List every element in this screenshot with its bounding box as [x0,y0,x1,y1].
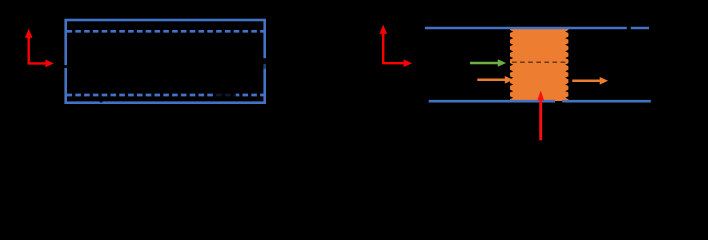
mid-plane dashed line inside control volume [512,61,567,63]
left coordinate axes (red x-y arrows) [25,29,54,68]
occlusion dimming bottom dashed line (invisible black text) [215,92,237,99]
control volume (orange box with zigzag cut edges) [510,28,568,101]
orange outflow arrow (right of control volume) [572,77,608,85]
top boundary-layer dashed line [67,30,265,33]
green flow arrow (into control volume, mid-plane) [470,59,506,67]
bottom wall line (right diagram) [429,100,651,103]
small notch on bottom wall [100,101,103,103]
orange inflow arrow (left of control volume) [477,76,513,84]
red upward arrow through bottom wall [537,91,544,141]
top wall line (right diagram) [425,27,649,30]
channel rectangle (left diagram walls) [66,20,265,103]
occlusion gap on left wall (invisible black label) [64,65,69,68]
right coordinate axes (red x-y arrows) [379,25,412,67]
occlusion gap on right wall (invisible black label) [263,58,268,64]
bottom boundary-layer dashed line [67,94,265,97]
